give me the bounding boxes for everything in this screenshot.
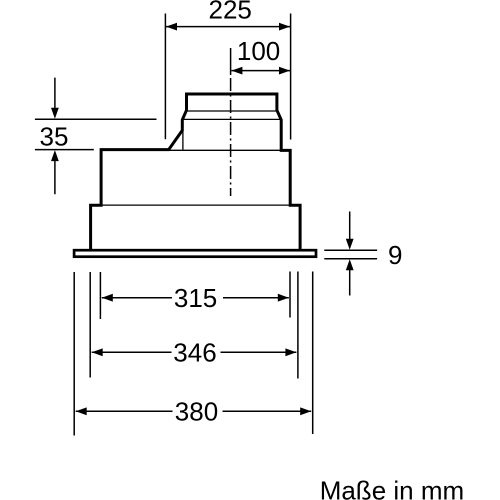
dim 225/100 extension right: [290, 14, 292, 140]
svg-text:100: 100: [237, 36, 280, 66]
dim 9 extension upper: [324, 249, 377, 251]
dim 315 label: [172, 286, 223, 309]
dim 380 extension left: [73, 272, 75, 436]
dim 380 line: [76, 410, 312, 412]
dim 9 extension lower: [324, 258, 377, 260]
dim 346 extension left: [89, 272, 91, 378]
hood main outline: [91, 94, 301, 249]
dim 315 extension left: [99, 272, 101, 319]
dim 9 arrow upper: [349, 212, 351, 244]
svg-text:380: 380: [175, 397, 218, 427]
svg-text:35: 35: [40, 122, 69, 152]
top surface edge behind chamfer: [170, 149, 282, 151]
dim 35 extension upper: [35, 118, 157, 120]
dim 380 label: [173, 400, 223, 423]
collar hidden left edge: [182, 131, 184, 150]
dim 346 line: [92, 351, 297, 353]
duct collar seam lower: [183, 118, 282, 120]
interior bottom edge of upper box: [102, 204, 290, 206]
bottom flange: [74, 250, 316, 257]
svg-text:346: 346: [173, 338, 216, 368]
centerline: [230, 48, 232, 75]
dim 35 arrow upper: [54, 78, 56, 112]
svg-text:Maße in mm: Maße in mm: [320, 475, 464, 500]
dim 225 extension left: [164, 14, 166, 140]
dim 346 label: [172, 341, 221, 364]
dim 225 line: [166, 26, 290, 28]
dim 9 arrow lower: [349, 266, 351, 296]
duct collar seam upper: [187, 110, 276, 112]
dim 346 extension right: [297, 272, 299, 379]
svg-text:315: 315: [174, 283, 217, 313]
dim 315 line: [102, 297, 289, 299]
dim 100 line: [231, 70, 290, 72]
dim 35 arrow lower: [54, 156, 56, 194]
dim 315 extension right: [289, 272, 291, 318]
svg-text:225: 225: [209, 0, 252, 24]
dim 35 extension lower: [35, 149, 94, 151]
dim 380 extension right: [312, 272, 314, 435]
svg-text:9: 9: [388, 240, 402, 270]
